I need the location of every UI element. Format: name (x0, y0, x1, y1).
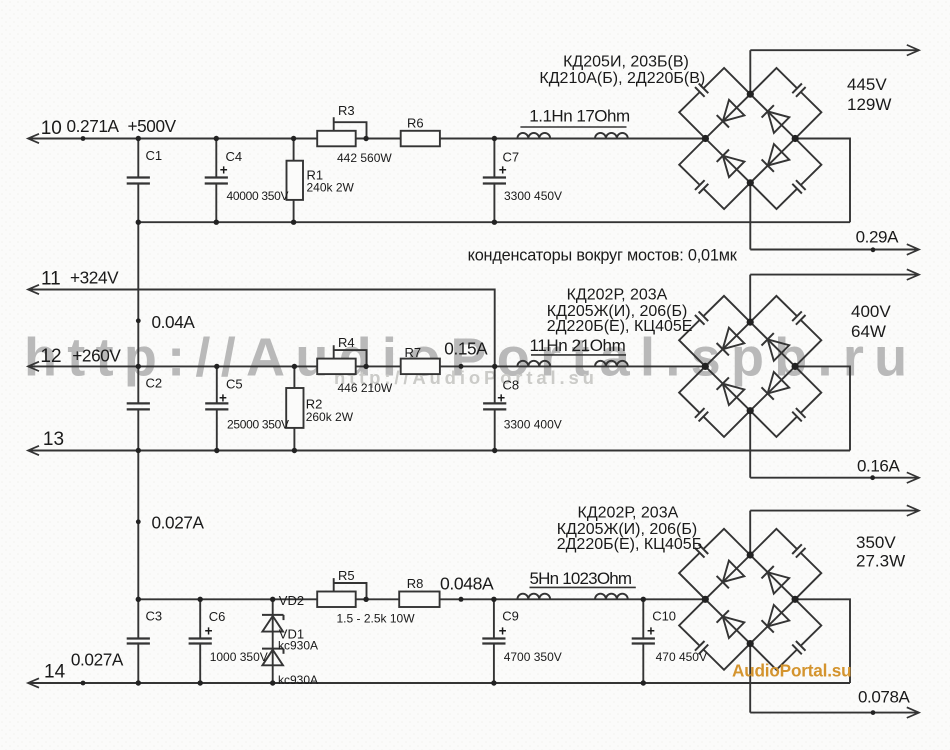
svg-text:+: + (647, 623, 655, 638)
node bridge 2 right (792, 363, 799, 370)
svg-text:R8: R8 (407, 576, 424, 591)
junction C10 / rail 14 (641, 680, 646, 685)
diode bridge 1 bottom-left (717, 150, 745, 178)
svg-text:0.048A: 0.048A (440, 574, 494, 594)
svg-text:VD2: VD2 (279, 593, 304, 608)
capacitor bridge 2 bottom-left snubber (695, 408, 708, 421)
capacitor bridge 2 top-left snubber (695, 311, 708, 324)
wire rail +260V (28, 365, 705, 367)
wire bridge 3 bottom-left snubber loop (679, 599, 750, 670)
capacitor bridge 3 top-left snubber (695, 544, 708, 557)
capacitor C9 (482, 639, 505, 644)
capacitor bridge 2 bottom-right snubber (792, 408, 805, 421)
node dot 0.078A marker (871, 710, 876, 715)
wire bridge 2 bottom-left edge (705, 366, 750, 410)
resistor R2 (286, 388, 303, 428)
svg-text:1000 350V: 1000 350V (210, 650, 268, 664)
svg-text:442 560W: 442 560W (337, 151, 392, 165)
arrow bridge2 output (907, 269, 919, 280)
capacitor bridge 3 bottom-left snubber (695, 641, 708, 654)
label C1 (146, 148, 163, 163)
inductor L2 winding 2 (595, 361, 628, 367)
svg-text:kc930A: kc930A (278, 639, 318, 653)
junction C2 / rail 13 (136, 448, 141, 453)
label C6 (209, 609, 226, 624)
node dot 0.027A lower marker (81, 681, 86, 686)
node dot 0.15A marker (459, 364, 464, 369)
polarity + of C10 (647, 623, 655, 638)
resistor R6 (401, 131, 440, 147)
wire bridge 2 top-left edge (705, 322, 750, 366)
capacitor C2 (127, 403, 150, 409)
wire vertical bus x138 (C1 bottom plate to C2 top plate) (137, 184, 139, 404)
svg-text:C2: C2 (146, 376, 163, 391)
diode bridge 3 top-right (762, 566, 790, 594)
wire bridge 1 top-left snubber loop (679, 68, 750, 139)
svg-text:+: + (220, 163, 228, 178)
node dot 0.04A marker (136, 318, 141, 323)
node dot 0.048A marker (459, 597, 464, 602)
value R5 1.5 - 2.5k 10W (337, 612, 416, 626)
label +500V (128, 116, 177, 136)
polarity + of C7 (499, 163, 507, 178)
resistor R4 (317, 359, 356, 375)
label 0.04A (152, 312, 196, 332)
arrow 0.078A (907, 707, 919, 718)
diode bridge 1 top-right (762, 105, 790, 133)
label 64W (851, 322, 886, 341)
watermark http://AudioPortal.spb.ru (24, 328, 917, 388)
wire 0.29A line (750, 249, 919, 251)
svg-text:11: 11 (41, 269, 61, 290)
wire rail 13 (28, 450, 850, 452)
inductor L3 winding 1 (517, 594, 550, 600)
capacitor C5 lead bottom (216, 409, 218, 450)
label diode types bridge2 line1 (567, 287, 668, 304)
svg-text:400V: 400V (851, 302, 891, 321)
svg-text:2Д220Б(Е), КЦ405Е: 2Д220Б(Е), КЦ405Е (547, 318, 693, 335)
arrow terminal 11 (28, 285, 39, 294)
node dot 0.16A marker (870, 475, 875, 480)
junction C10 / section3 rail (641, 597, 646, 602)
label 5Hn 1023Ohm (530, 569, 632, 588)
capacitor C9 lead top (493, 599, 495, 638)
value C10 470 450V (656, 650, 707, 664)
junction C9 / section3 rail (491, 597, 496, 602)
junction C5 / rail +260V (214, 364, 219, 369)
tap wiper of R3 (334, 117, 367, 138)
junction VD2 / section3 rail (270, 597, 275, 602)
label 11 (41, 269, 61, 290)
inductor L3 winding 2 (595, 594, 628, 600)
junction C1 / rail +500V (136, 136, 141, 141)
node bridge 2 left (702, 363, 709, 370)
svg-text:КД205И, 203Б(В): КД205И, 203Б(В) (563, 54, 689, 71)
resistor R3 (317, 131, 356, 147)
junction R3 tap / rail (363, 136, 368, 141)
wire bridge 2 bottom-left snubber loop (679, 366, 750, 437)
label 0.048A (440, 574, 494, 594)
svg-text:2Д220Б(Е), КЦ405Б: 2Д220Б(Е), КЦ405Б (557, 536, 703, 553)
svg-text:C3: C3 (146, 609, 163, 624)
diode bridge 3 top-left (717, 561, 745, 589)
junction C6 / section3 rail (198, 597, 203, 602)
svg-text:446 210W: 446 210W (338, 381, 393, 395)
capacitor C8 lead bottom (494, 409, 496, 450)
svg-text:5Hn 1023Ohm: 5Hn 1023Ohm (530, 569, 632, 588)
wire bridge1 output up (749, 50, 751, 94)
capacitor bridge 1 bottom-left snubber (695, 180, 708, 193)
label 11Hn 21Ohm (530, 336, 626, 355)
svg-text:C6: C6 (209, 609, 226, 624)
label kc930A lower (278, 673, 318, 687)
junction C1 / lower rail (136, 220, 141, 225)
wire 0.078A line (750, 712, 919, 714)
wire bridge 1 top-left edge (705, 94, 750, 138)
value R1 240k 2W (307, 180, 355, 194)
svg-text:3300 450V: 3300 450V (504, 189, 562, 203)
capacitor C6 lead top (199, 599, 201, 638)
svg-text:+: + (499, 163, 507, 178)
capacitor C1 (127, 178, 150, 184)
capacitor bridge 1 top-right snubber (792, 84, 805, 97)
wire bridge 1 top-right snubber loop (750, 68, 821, 139)
wire rail section3 upper (138, 598, 705, 600)
svg-text:R3: R3 (338, 103, 355, 118)
capacitor C7 lead bottom (493, 184, 495, 223)
svg-text:R5: R5 (338, 568, 355, 583)
tap wiper of R4 (334, 345, 367, 366)
wire bridge 3 top-left edge (705, 555, 750, 599)
wire bridge 2 bottom-right snubber loop (750, 366, 821, 437)
wire bridge 2 bottom-right edge (750, 366, 795, 410)
polarity + of C6 (205, 623, 213, 638)
label 10 (41, 118, 62, 139)
svg-text:0.078A: 0.078A (858, 688, 911, 707)
label 129W (847, 95, 891, 114)
svg-text:+: + (219, 390, 227, 405)
diode bridge 2 top-right (762, 333, 790, 361)
label R6 (407, 116, 424, 131)
svg-text:64W: 64W (851, 322, 886, 341)
value C6 1000 350V (210, 650, 268, 664)
svg-text:0.027A: 0.027A (152, 513, 205, 533)
svg-text:240k 2W: 240k 2W (307, 180, 355, 194)
label +324V (70, 268, 119, 288)
label diode types bridge3 line3 (557, 536, 703, 553)
label C7 (503, 150, 520, 165)
tap wiper of R5 (334, 578, 367, 599)
label diode types bridge2 line2 (547, 303, 688, 320)
svg-text:27.3W: 27.3W (856, 552, 905, 571)
label 12 (40, 346, 61, 367)
junction C8 / rail 13 (492, 448, 497, 453)
label diode types bridge3 line1 (578, 505, 679, 522)
resistor R2 lead (293, 366, 295, 450)
capacitor bridge 3 bottom-right snubber (792, 641, 805, 654)
wire bridge2 output up (749, 275, 751, 323)
label diode types bridge2 line3 (547, 318, 693, 335)
capacitor C7 (483, 178, 506, 184)
label 445V (847, 75, 887, 94)
svg-text:C10: C10 (652, 609, 676, 624)
watermark http://AudioPortal.su (334, 367, 598, 388)
arrow terminal 12 (28, 362, 39, 371)
diode bridge 1 bottom-right (762, 144, 790, 172)
wire bridge 3 bottom-right snubber loop (750, 599, 821, 670)
label 1.1Hn 17Ohm (529, 107, 630, 126)
svg-text:10: 10 (41, 118, 62, 139)
svg-text:C5: C5 (226, 377, 243, 392)
junction R4 tap / rail (363, 364, 368, 369)
arrow terminal 13 (28, 446, 39, 455)
label R5 (338, 568, 355, 583)
svg-text:+324V: +324V (70, 268, 119, 288)
inductor L1 winding 2 (595, 133, 628, 139)
junction C2 / rail +260V (136, 364, 141, 369)
svg-text:+: + (499, 623, 507, 638)
wire bridge 1 bottom-left edge (705, 139, 750, 183)
capacitor C6 lead bottom (199, 644, 201, 684)
svg-text:14: 14 (44, 662, 66, 683)
wire vertical bus x138 (rail +500V to C1 top plate) (137, 139, 139, 178)
junction vertical bus / section3 rail (136, 597, 141, 602)
svg-text:kc930A: kc930A (278, 673, 318, 687)
label 0.271A (67, 116, 120, 136)
junction C7 / rail +500V (492, 136, 497, 141)
underline of L2 label (531, 354, 626, 356)
zener chain lead (272, 599, 274, 683)
resistor R8 (399, 592, 439, 608)
label R1 (307, 168, 324, 183)
arrow 0.16A (907, 472, 919, 483)
node bridge 3 top (747, 551, 754, 558)
value R4 446 210W (338, 381, 393, 395)
node bridge 3 right (792, 596, 799, 603)
capacitor C5 (205, 403, 228, 409)
label VD2 (279, 593, 304, 608)
wire bridge 1 top-right edge (750, 94, 795, 138)
svg-text:11Hn 21Ohm: 11Hn 21Ohm (530, 336, 626, 355)
capacitor C8 lead middle (494, 366, 496, 403)
label R8 (407, 576, 424, 591)
svg-text:129W: 129W (847, 95, 891, 114)
value C4 40000 350V (227, 189, 289, 203)
junction C4 / rail +500V (214, 136, 219, 141)
junction C5 / rail 13 (214, 448, 219, 453)
wire bridge 2 top-right edge (750, 322, 795, 366)
logo AudioPortal.su (732, 661, 851, 681)
label kc930A upper (278, 639, 318, 653)
value R2 260k 2W (306, 410, 354, 424)
arrow terminal 14 (28, 678, 39, 687)
label 0.15A (444, 339, 488, 359)
capacitor bridge 1 top-left snubber (695, 84, 708, 97)
svg-text:0.29A: 0.29A (856, 228, 899, 247)
label 0.027A upper (152, 513, 205, 533)
wire bridge 3 top-left snubber loop (679, 529, 750, 600)
arrow bridge1 output (907, 45, 919, 56)
svg-text:0.15A: 0.15A (444, 339, 488, 359)
capacitor C3 (127, 639, 150, 644)
node bridge 2 top (747, 319, 754, 326)
junction C6 / rail 14 (198, 680, 203, 685)
label 0.078A (858, 688, 911, 707)
label R4 (338, 335, 355, 350)
svg-text:AudioPortal.su: AudioPortal.su (732, 661, 851, 681)
wire bridge 3 top-right edge (750, 555, 795, 599)
note: конденсаторы вокруг мостов 0,01мк (468, 247, 738, 265)
wire bridge1 output (750, 49, 919, 51)
resistor R1 lead (293, 139, 295, 223)
wire rail +500V (28, 138, 705, 140)
junction C4 / lower rail (214, 220, 219, 225)
label diode types bridge1 line2 (539, 70, 705, 87)
label 400V (851, 302, 891, 321)
svg-text:12: 12 (40, 346, 61, 367)
capacitor C9 lead bottom (493, 644, 495, 684)
junction R1 / lower rail (291, 220, 296, 225)
wire bridge 3 bottom-right edge (750, 599, 795, 643)
wire bridge2 right to rail13 (795, 366, 850, 450)
value C7 3300 450V (504, 189, 562, 203)
label C10 (652, 609, 676, 624)
wire vertical bus x138 (C3 bottom plate to rail 14) (137, 644, 139, 684)
arrow terminal 10 (28, 134, 39, 143)
value C5 25000 350V (227, 417, 289, 431)
wire bridge3 bottom down (749, 644, 751, 713)
capacitor bridge 3 top-right snubber (792, 544, 805, 557)
svg-text:350V: 350V (856, 533, 896, 552)
capacitor C4 (205, 178, 228, 184)
capacitor C6 (189, 639, 212, 644)
svg-text:3300 400V: 3300 400V (504, 417, 562, 431)
polarity + of C8 (497, 390, 505, 405)
resistor R7 (401, 359, 440, 375)
capacitor C10 lead bottom (642, 644, 644, 684)
label 27.3W (856, 552, 905, 571)
svg-text:R4: R4 (338, 335, 355, 350)
label R3 (338, 103, 355, 118)
wire bridge 1 bottom-right snubber loop (750, 139, 821, 210)
svg-text:C8: C8 (503, 378, 520, 393)
value C8 3300 400V (504, 417, 562, 431)
underline of L1 label (520, 126, 626, 128)
diode bridge 2 bottom-left (717, 377, 745, 405)
svg-text:0.16A: 0.16A (857, 457, 900, 476)
node bridge 1 left (702, 135, 709, 142)
zener diode VD2 (262, 615, 284, 632)
capacitor C8 (483, 403, 506, 409)
wire bridge 1 bottom-left snubber loop (679, 139, 750, 210)
junction VD1 / rail 14 (270, 680, 275, 685)
svg-text:+: + (497, 390, 505, 405)
label R7 (405, 345, 422, 360)
capacitor C4 lead top (215, 139, 217, 178)
wire bridge3 right to rail14 (795, 599, 850, 683)
node bridge 1 bottom (747, 179, 754, 186)
arrow 0.29A (907, 244, 919, 255)
wire 0.16A line (750, 477, 919, 479)
svg-text:R6: R6 (407, 116, 424, 131)
label 350V (856, 533, 896, 552)
resistor R1 (287, 161, 304, 200)
capacitor bridge 1 bottom-right snubber (792, 180, 805, 193)
wire bridge3 output (750, 510, 919, 512)
svg-text:40000 350V: 40000 350V (227, 189, 289, 203)
node bridge 1 top (747, 91, 754, 98)
label 0.29A (856, 228, 899, 247)
label C9 (502, 609, 519, 624)
underline of L3 label (530, 586, 636, 588)
inductor L1 winding 1 (517, 133, 550, 139)
arrow bridge3 output (907, 505, 919, 516)
svg-text:25000 350V: 25000 350V (227, 417, 289, 431)
label 13 (43, 429, 64, 450)
wire rail 14 (28, 682, 850, 684)
label diode types bridge1 line1 (563, 54, 689, 71)
svg-text:0.271A: 0.271A (67, 116, 120, 136)
label diode types bridge3 line2 (557, 521, 698, 538)
svg-text:260k 2W: 260k 2W (306, 410, 354, 424)
label 0.027A lower (71, 650, 124, 670)
capacitor C7 lead top (493, 139, 495, 178)
wire vertical bus x138 (C2 bottom plate to C3 top plate) (137, 409, 139, 638)
label R2 (306, 397, 323, 412)
svg-text:13: 13 (43, 429, 64, 450)
capacitor C5 lead top (216, 366, 218, 403)
svg-text:R7: R7 (405, 345, 422, 360)
svg-text:1.5 - 2.5k 10W: 1.5 - 2.5k 10W (337, 612, 416, 626)
node bridge 2 bottom (747, 407, 754, 414)
node dot 0.027A marker (136, 519, 141, 524)
diode bridge 3 bottom-left (717, 610, 745, 638)
svg-text:445V: 445V (847, 75, 887, 94)
junction vertical bus / rail 14 (136, 680, 141, 685)
svg-text:конденсаторы вокруг мостов: 0,: конденсаторы вокруг мостов: 0,01мк (468, 247, 738, 265)
wire bridge 3 bottom-left edge (705, 599, 750, 643)
svg-text:C1: C1 (146, 148, 163, 163)
label 0.16A (857, 457, 900, 476)
wire bridge2 output (750, 274, 919, 276)
svg-text:4700 350V: 4700 350V (504, 650, 562, 664)
junction C7 / lower rail (492, 220, 497, 225)
svg-text:C7: C7 (503, 150, 520, 165)
diode bridge 2 top-left (717, 328, 745, 356)
svg-text:C4: C4 (226, 149, 243, 164)
label C2 (146, 376, 163, 391)
junction C9 / rail 14 (491, 680, 496, 685)
node bridge 3 bottom (747, 640, 754, 647)
node bridge 1 right (792, 135, 799, 142)
junction R5 tap / rail (363, 597, 368, 602)
wire bridge 3 top-right snubber loop (750, 529, 821, 600)
wire rail +324V (28, 290, 495, 367)
capacitor bridge 2 top-right snubber (792, 311, 805, 324)
svg-text:КД202Р, 203А: КД202Р, 203А (567, 287, 668, 304)
diode bridge 2 bottom-right (762, 372, 790, 400)
capacitor C4 lead bottom (215, 184, 217, 223)
label C8 (503, 378, 520, 393)
label C5 (226, 377, 243, 392)
diode bridge 1 top-left (717, 100, 745, 128)
node bridge 3 left (702, 596, 709, 603)
capacitor C10 (632, 639, 655, 644)
svg-text:+260V: +260V (72, 346, 121, 366)
node dot 0.271A marker (81, 136, 86, 141)
svg-text:0.027A: 0.027A (71, 650, 124, 670)
diode bridge 3 bottom-right (762, 605, 790, 633)
